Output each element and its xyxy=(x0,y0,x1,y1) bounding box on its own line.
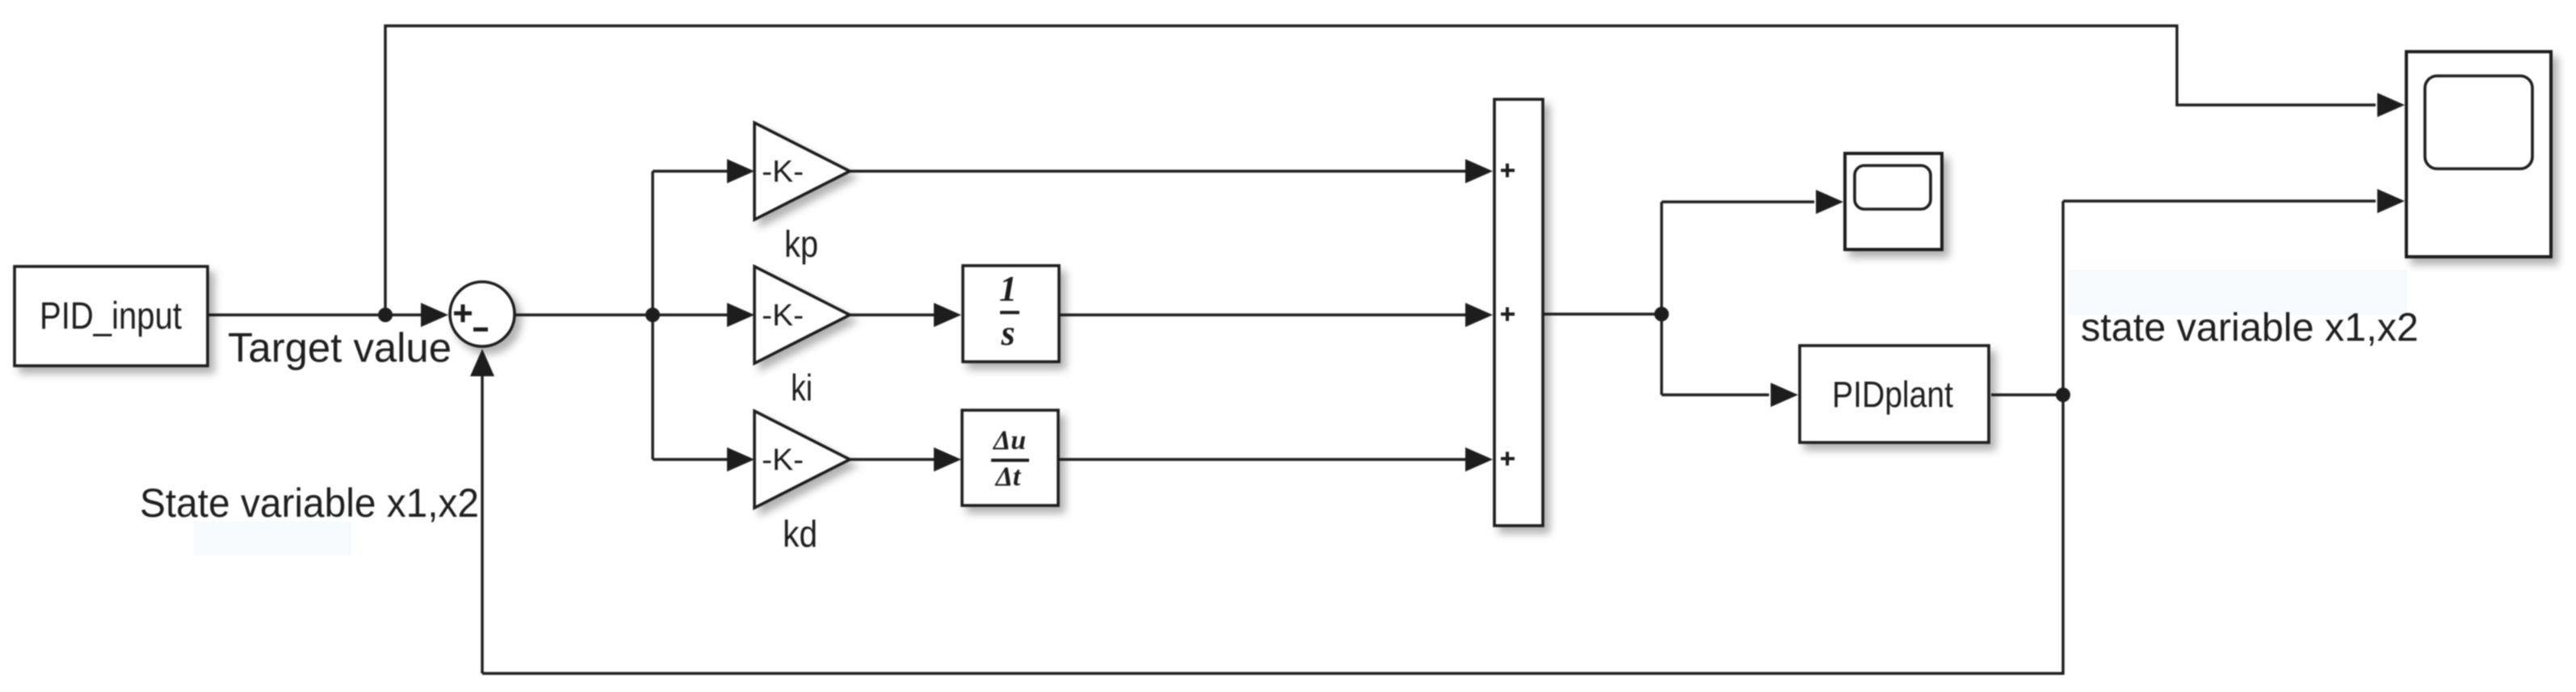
wire ki to integrator xyxy=(850,313,934,316)
arrowhead into adder input 2 xyxy=(1465,303,1493,327)
arrowhead into gain kd xyxy=(727,447,754,472)
gain kp xyxy=(754,123,850,220)
arrowhead into derivative xyxy=(934,447,961,472)
arrowhead into big scope input 1 xyxy=(2377,93,2405,117)
node branch after adder xyxy=(1654,307,1669,321)
node branch after PID_input xyxy=(378,308,393,322)
svg-text:kp: kp xyxy=(784,223,818,265)
arrowhead into small scope xyxy=(1816,190,1843,214)
adder plus input 1 xyxy=(1501,164,1515,178)
arrowhead into integrator xyxy=(934,303,961,327)
svg-text:kd: kd xyxy=(783,513,817,555)
wire feedback up into sum xyxy=(481,375,483,673)
wire PID_input to sum xyxy=(208,313,421,316)
wire branch to gain kp xyxy=(653,170,727,172)
wire branch vertical xyxy=(651,171,653,459)
svg-text:Δu: Δu xyxy=(992,426,1026,455)
svg-text:s: s xyxy=(1000,313,1015,353)
wire to PIDplant xyxy=(1662,393,1769,396)
svg-text:-K-: -K- xyxy=(762,299,804,333)
node branch after PIDplant xyxy=(2056,388,2070,402)
scope block small xyxy=(1845,153,1942,250)
arrowhead into gain kp xyxy=(727,159,754,183)
arrowhead into sum bottom xyxy=(470,349,494,376)
wire sum to gains branch xyxy=(515,313,727,316)
integrator block 1/s xyxy=(963,266,1059,362)
wire to small scope xyxy=(1662,200,1814,203)
wire to big scope input 2 xyxy=(2063,199,2376,202)
gain ki xyxy=(754,266,850,363)
svg-text:PIDplant: PIDplant xyxy=(1832,374,1953,415)
arrowhead into adder input 3 xyxy=(1465,447,1493,472)
scope big screen xyxy=(2425,76,2532,169)
adder plus input 3 xyxy=(1501,452,1515,466)
svg-text:-K-: -K- xyxy=(762,443,804,477)
adder plus input 2 xyxy=(1501,308,1515,321)
arrowhead into adder input 1 xyxy=(1465,159,1493,183)
node branch to gains xyxy=(645,308,660,322)
wire branch vertical after PIDplant xyxy=(2061,201,2064,395)
svg-text:State variable x1,x2: State variable x1,x2 xyxy=(140,480,479,526)
wire kd to derivative xyxy=(850,458,934,460)
annotation highlight left xyxy=(194,522,351,556)
arrowhead into big scope input 2 xyxy=(2377,189,2405,213)
wire adder output xyxy=(1543,312,1662,315)
arrowhead into PIDplant xyxy=(1771,383,1798,407)
arrowhead into sum xyxy=(421,303,448,327)
svg-text:-K-: -K- xyxy=(762,155,804,189)
sum minus sign xyxy=(473,328,488,332)
svg-text:PID_input: PID_input xyxy=(40,294,182,337)
svg-text:Target value: Target value xyxy=(228,325,452,371)
arrowhead into gain ki xyxy=(727,303,754,327)
derivative block du/dt xyxy=(962,410,1058,505)
block PIDplant xyxy=(1800,346,1989,442)
wire kp to adder xyxy=(850,170,1465,172)
adder block xyxy=(1494,99,1543,526)
annotation highlight right xyxy=(2068,270,2407,315)
svg-text:1: 1 xyxy=(999,269,1017,308)
gain kd xyxy=(754,411,850,508)
sum junction S1 xyxy=(450,282,515,346)
svg-text:ki: ki xyxy=(791,367,813,409)
wire top feedforward to big scope xyxy=(385,26,2376,315)
svg-text:Δt: Δt xyxy=(994,462,1022,492)
wire derivative to adder xyxy=(1059,458,1465,460)
sum plus sign xyxy=(454,304,472,322)
wire branch to gain kd xyxy=(653,458,727,460)
wire branch vertical after adder xyxy=(1660,202,1662,395)
wire feedback bottom xyxy=(482,395,2063,673)
scope small screen xyxy=(1855,166,1931,209)
block PID_input xyxy=(15,266,208,366)
svg-text:state variable x1,x2: state variable x1,x2 xyxy=(2081,306,2418,350)
scope block big xyxy=(2406,52,2551,257)
wire integrator to adder xyxy=(1059,313,1465,316)
wire PIDplant output xyxy=(1991,393,2063,396)
